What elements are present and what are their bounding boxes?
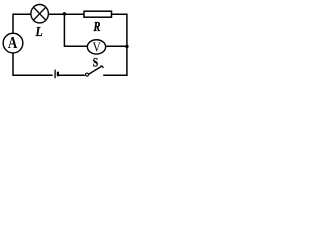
svg-text:V: V — [93, 39, 101, 54]
svg-text:A: A — [8, 34, 17, 53]
svg-text:R: R — [93, 18, 101, 34]
svg-text:L: L — [35, 24, 43, 39]
svg-text:S: S — [93, 56, 98, 69]
